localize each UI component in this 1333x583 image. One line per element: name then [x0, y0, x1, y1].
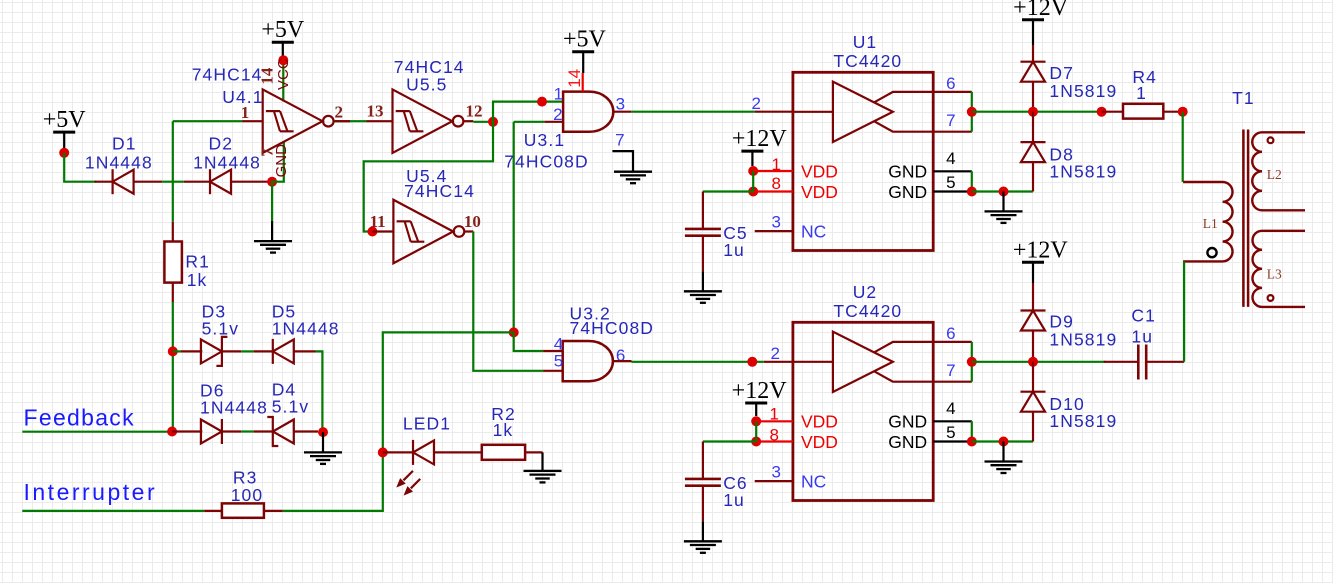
ground stem below D4 — [322, 432, 324, 452]
resistor R1 pins — [172, 222, 174, 242]
wire U4.1 output to U5.5 input — [335, 120, 367, 122]
polarity dot L2 — [1268, 137, 1274, 143]
wire C1 to T1 L1 bottom — [1183, 261, 1185, 361]
svg-text:+5V: +5V — [261, 17, 305, 43]
svg-text:74HC08D: 74HC08D — [504, 151, 589, 171]
capacitor C1 plates — [1137, 345, 1140, 380]
svg-text:2: 2 — [335, 103, 344, 122]
diode D9 1N5819 — [1021, 311, 1046, 331]
svg-text:+5V: +5V — [563, 27, 607, 53]
U2 GND pins tie wire — [971, 421, 973, 441]
svg-text:NC: NC — [801, 472, 826, 492]
svg-text:Interrupter: Interrupter — [24, 479, 158, 505]
svg-text:1u: 1u — [1131, 327, 1153, 347]
wire vertical to U3.2 pin 4 net — [513, 122, 515, 333]
wire Feedback — [22, 431, 172, 433]
AND gate U3.1 74HC08D — [563, 92, 613, 132]
stem to ground below C5 — [702, 271, 704, 291]
C5 top pin — [702, 192, 704, 229]
stem to ground below U1 GND — [1002, 192, 1004, 212]
U3.1 output pin stub — [613, 111, 631, 113]
svg-text:Feedback: Feedback — [24, 405, 135, 431]
svg-text:L2: L2 — [1267, 167, 1282, 182]
wire D5 to D4 ground corner — [316, 351, 323, 432]
svg-text:+12V: +12V — [1013, 0, 1069, 21]
junction dot U1 pin 8 VDD — [748, 187, 758, 197]
pin 14 stub red (U3.1 VCC) — [582, 73, 584, 92]
diode D5 1N4448 — [273, 339, 294, 364]
svg-text:74HC14: 74HC14 — [404, 181, 475, 201]
resistor R4 pins — [1102, 111, 1123, 113]
wire black stem to ground below U4.1 — [271, 221, 273, 241]
wire U3.2 output to U2 pin 2 — [632, 361, 764, 363]
diode D6 1N4448 — [201, 419, 222, 444]
transformer T1 winding L3 — [1252, 231, 1305, 307]
transformer T1 winding L1 — [1183, 182, 1232, 261]
wire U3.1 output to U1 pin 2 — [631, 111, 755, 113]
IC U2 pin2 inner line — [793, 361, 833, 363]
R2 right pin — [525, 451, 542, 453]
svg-text:1: 1 — [241, 103, 250, 122]
svg-text:D7: D7 — [1049, 63, 1074, 83]
svg-text:GND: GND — [888, 162, 927, 182]
wire between U2 VDD dots — [755, 421, 757, 441]
stem to ground below R2 — [541, 452, 543, 471]
junction dot U2 GND row 2 — [999, 437, 1009, 447]
wire U5.4 output down to U3.2 pin 5 — [473, 232, 543, 371]
capacitor C1 right pin — [1146, 361, 1184, 363]
ground below U3.1 pin 7 — [614, 172, 652, 184]
svg-text:12: 12 — [466, 101, 483, 120]
IC U1 pin2 inner line — [793, 111, 833, 113]
svg-text:T1: T1 — [1232, 88, 1255, 108]
wire VDD to C5 — [703, 190, 753, 192]
power +12V (above D9) — [1013, 237, 1069, 283]
svg-text:GND: GND — [888, 432, 927, 452]
svg-text:10: 10 — [464, 212, 481, 231]
wire into U1 pin 2 — [755, 111, 793, 113]
svg-text:7: 7 — [615, 131, 624, 150]
svg-text:5.1v: 5.1v — [272, 397, 309, 417]
svg-text:U1: U1 — [853, 32, 878, 52]
wire vertical net R1/U4.1 input — [172, 121, 174, 222]
wire R1 bottom to D3/D6 rows — [172, 302, 174, 432]
svg-text:2: 2 — [771, 344, 780, 363]
IC U2 buffer triangle — [833, 332, 893, 392]
svg-text:D2: D2 — [209, 134, 234, 154]
U2 pin 3 NC stub — [755, 480, 793, 482]
svg-text:4: 4 — [946, 149, 955, 168]
svg-text:2: 2 — [752, 94, 761, 113]
svg-text:VDD: VDD — [801, 182, 838, 202]
wire R4 to T1 L1 top — [1182, 112, 1184, 182]
U1 pins 6/7 tie — [971, 92, 973, 132]
svg-text:VDD: VDD — [801, 432, 838, 452]
wire to U4.1 input pin 1 — [173, 120, 243, 122]
wire into U2 pin 2 — [764, 361, 793, 363]
junction dot D3 row — [168, 346, 178, 356]
LED LED1 — [413, 440, 434, 465]
svg-text:7: 7 — [946, 361, 955, 380]
svg-text:3: 3 — [772, 463, 781, 482]
wire VDD to C6 — [703, 440, 756, 442]
svg-text:1: 1 — [1136, 83, 1147, 103]
ground below U2 pin 5 — [985, 462, 1023, 474]
wire D1-D2 link crossing vertical net — [162, 181, 184, 183]
wire junction down-left to U5.4 input — [364, 122, 493, 232]
power +12V (U2 VDD) — [732, 378, 788, 416]
junction dot U1 GND row 1 — [967, 187, 977, 197]
polarity dot L1 — [1207, 248, 1216, 257]
diode D8 1N5819 — [1021, 142, 1046, 162]
wire D3 row from junction — [173, 350, 181, 352]
power +5V (top, U4.1 VCC) — [261, 17, 305, 57]
svg-text:+12V: +12V — [732, 126, 788, 152]
svg-text:L1: L1 — [1203, 216, 1218, 231]
capacitor C6 plates — [685, 478, 721, 481]
diode D5 pins — [254, 350, 273, 352]
U1 VDD pin 1 red wire — [753, 170, 793, 172]
AND gate U3.2 74HC08D — [563, 341, 613, 381]
svg-text:L3: L3 — [1267, 267, 1282, 282]
junction dot U1 GND row 2 — [999, 187, 1009, 197]
junction dot Feedback/D6 row — [167, 427, 177, 437]
diode D1 1N4448 — [113, 169, 134, 194]
svg-text:+5V: +5V — [43, 107, 87, 133]
svg-text:2: 2 — [553, 105, 562, 124]
transformer T1 core — [1242, 130, 1245, 307]
junction dot LED branch — [378, 447, 388, 457]
wire U2 GND row — [972, 440, 1033, 442]
IC U1 buffer triangle — [833, 82, 893, 142]
junction dot U2 GND row 1 — [967, 437, 977, 447]
wire U5.5 output to junction — [473, 121, 493, 123]
inverter U5.5 74HC14 — [393, 89, 464, 153]
junction dot U5.4 pin 11 — [367, 227, 377, 237]
inverter U4.1 74HC14 — [263, 89, 334, 153]
junction dot D2/U4.1 GND — [267, 177, 277, 187]
resistor R3 — [222, 503, 264, 517]
LED1 arrows — [404, 471, 421, 488]
junction dot below top +5V — [278, 55, 288, 65]
D7 anode pin — [1032, 82, 1034, 112]
inverter U5.5 output pin stub — [464, 120, 474, 122]
C5 bottom pin — [702, 236, 704, 272]
svg-text:C1: C1 — [1131, 306, 1156, 326]
power +5V (U3.1 VCC) — [563, 27, 607, 73]
svg-text:NC: NC — [801, 222, 826, 242]
svg-text:6: 6 — [946, 324, 955, 343]
junction dot D9/D10 — [1028, 357, 1038, 367]
IC U2 TC4420 box — [793, 322, 933, 500]
svg-text:1k: 1k — [187, 270, 208, 290]
svg-text:3: 3 — [772, 213, 781, 232]
inverter U5.4 input pin — [372, 230, 393, 232]
U1 VDD pin 8 red wire — [753, 190, 793, 192]
svg-text:D1: D1 — [112, 134, 137, 154]
ground below R2 — [524, 471, 562, 483]
inverter U5.4 74HC14 — [393, 200, 464, 264]
junction dot U1 pin 1 VDD — [748, 166, 758, 176]
U2 VDD pin 1 red wire — [756, 420, 793, 422]
svg-text:11: 11 — [370, 212, 386, 231]
wire Interrupter to R3 — [22, 510, 204, 512]
wire junction up to U3.1 pin 1 — [493, 102, 563, 122]
junction dot U5.5 output — [488, 117, 498, 127]
svg-text:1u: 1u — [723, 490, 745, 510]
svg-text:74HC08D: 74HC08D — [570, 318, 655, 338]
svg-text:7: 7 — [946, 111, 955, 130]
wire to U3.2 pin 4 — [514, 332, 543, 351]
ground below U4.1/D2 — [254, 241, 292, 253]
svg-text:5: 5 — [554, 352, 563, 371]
pin 7 wire to ground (U3.1) — [612, 151, 633, 172]
junction dot wire to U3.2 pin 4 — [509, 327, 519, 337]
pin 4 stub U3.2 — [543, 350, 563, 352]
resistor R1 — [164, 242, 182, 283]
transformer T1 winding L2 — [1252, 132, 1305, 210]
resistor R3 pins — [204, 510, 222, 512]
capacitor C1 left pin — [1104, 361, 1139, 363]
D8 cathode pin — [1032, 112, 1034, 142]
junction dot U1 output — [967, 107, 977, 117]
svg-text:R1: R1 — [185, 251, 210, 271]
wire U1 GND row — [972, 190, 1033, 192]
svg-text:74HC14: 74HC14 — [192, 65, 263, 85]
wire U4.1 GND pin down to junction — [272, 142, 284, 222]
wire +5V stem to U4.1 VCC — [282, 65, 284, 102]
power +12V (above D7) — [1013, 0, 1069, 45]
U2 VDD pin 8 red wire — [756, 440, 793, 442]
svg-text:1N5819: 1N5819 — [1049, 330, 1117, 350]
svg-text:U3.1: U3.1 — [524, 130, 565, 150]
svg-text:8: 8 — [772, 174, 781, 193]
pin 5 stub U3.2 — [543, 370, 563, 372]
capacitor C5 plates — [685, 228, 721, 231]
svg-text:1N4448: 1N4448 — [193, 153, 261, 173]
D8 anode pin — [1032, 162, 1034, 191]
ground below C6 — [684, 541, 722, 553]
junction dot U2 pin 8 VDD — [751, 437, 761, 447]
stem to ground below C6 — [702, 521, 704, 541]
power +12V (U1 VDD) — [732, 126, 788, 166]
D10 cathode pin — [1032, 362, 1034, 392]
diode D4 pins — [254, 430, 273, 432]
inverter U4.1 output pin stub — [335, 120, 350, 122]
junction dot after R4 — [1178, 107, 1188, 117]
wire between D3 and D5 — [241, 350, 253, 352]
svg-text:GND: GND — [273, 144, 290, 178]
svg-text:VCC: VCC — [275, 58, 292, 90]
svg-text:3: 3 — [616, 94, 625, 113]
wire U2 output row to D9/D10 — [972, 361, 1106, 363]
resistor R2 — [482, 445, 525, 460]
inverter U5.4 output pin stub — [465, 230, 474, 232]
svg-text:6: 6 — [616, 346, 625, 365]
junction dot D7/D8 — [1028, 107, 1038, 117]
U1 pin 3 NC stub — [755, 230, 793, 232]
svg-text:1N5819: 1N5819 — [1049, 411, 1117, 431]
svg-text:GND: GND — [888, 412, 927, 432]
diode D10 1N5819 — [1021, 392, 1046, 412]
svg-text:5: 5 — [946, 423, 955, 442]
junction dot U2 output — [967, 357, 977, 367]
junction dot on U3.1 pin1 wire — [537, 97, 547, 107]
svg-text:U2: U2 — [853, 282, 878, 302]
svg-text:TC4420: TC4420 — [833, 301, 902, 321]
IC U2 output fork lines — [874, 342, 972, 382]
svg-text:1k: 1k — [493, 420, 514, 440]
wire junction to LED/interrupter net — [283, 332, 514, 511]
diode D1 pins — [95, 181, 113, 183]
svg-text:1N4448: 1N4448 — [272, 319, 340, 339]
D9 anode pin — [1032, 331, 1034, 362]
U2 GND pins 4/5 — [933, 420, 972, 422]
svg-text:LED1: LED1 — [403, 414, 451, 434]
svg-text:1N5819: 1N5819 — [1049, 162, 1117, 182]
IC U1 output fork lines — [874, 92, 972, 132]
inverter U4.1 input pin — [243, 120, 263, 122]
svg-text:VDD: VDD — [801, 162, 838, 182]
wire U1 output row to D7/D8 — [972, 111, 1102, 113]
junction dot before R4 — [1097, 107, 1107, 117]
diode D3 5.1v zener — [201, 337, 228, 366]
diode D6 pins — [172, 430, 202, 432]
D9 cathode pin — [1032, 283, 1034, 311]
svg-text:1N4448: 1N4448 — [200, 398, 268, 418]
C6 bottom pin — [702, 486, 704, 522]
svg-text:+12V: +12V — [732, 378, 788, 404]
svg-text:4: 4 — [946, 399, 955, 418]
svg-text:TC4420: TC4420 — [833, 51, 902, 71]
svg-text:5.1v: 5.1v — [202, 319, 239, 339]
ground below C5 — [684, 291, 722, 303]
svg-text:13: 13 — [367, 101, 384, 120]
power +5V (left) — [43, 107, 87, 150]
U2 pins 6/7 tie — [971, 342, 973, 382]
U1 GND pins tie wire — [971, 171, 973, 191]
U3.2 output pin stub — [613, 360, 632, 362]
svg-text:+12V: +12V — [1013, 237, 1069, 263]
ground below D4 — [304, 452, 342, 464]
pin 2 stub U3.1 — [545, 121, 564, 123]
svg-text:GND: GND — [888, 182, 927, 202]
svg-text:1N5819: 1N5819 — [1049, 81, 1117, 101]
svg-text:6: 6 — [946, 74, 955, 93]
svg-text:5: 5 — [946, 173, 955, 192]
diode D3 pins — [181, 350, 202, 352]
svg-text:1u: 1u — [723, 240, 745, 260]
D10 anode pin — [1032, 412, 1034, 442]
wire between VDD dots — [752, 171, 754, 192]
svg-text:14: 14 — [565, 69, 584, 88]
LED1 cathode pin to R2 — [434, 451, 482, 453]
svg-text:U5.5: U5.5 — [406, 75, 447, 95]
D7 cathode pin — [1032, 45, 1034, 62]
stem to ground below U2 GND — [1002, 442, 1004, 462]
C6 top pin — [702, 442, 704, 479]
IC U1 TC4420 box — [793, 72, 933, 250]
svg-text:100: 100 — [231, 485, 264, 505]
U1 GND pins 4/5 — [933, 170, 972, 172]
junction dot on U2 pin 2 wire — [747, 357, 757, 367]
wire +5V to D1 row — [64, 153, 96, 182]
svg-text:1N4448: 1N4448 — [85, 153, 153, 173]
ground below U1 pin 5 — [985, 211, 1023, 223]
junction dot below left +5V — [59, 148, 69, 158]
wire between D6 and D4 — [241, 430, 253, 432]
polarity dot L3 — [1268, 295, 1274, 301]
resistor R4 — [1123, 104, 1163, 119]
svg-text:D9: D9 — [1049, 312, 1074, 332]
svg-text:14: 14 — [258, 67, 277, 85]
LED1 anode pin — [383, 451, 413, 453]
svg-text:1: 1 — [554, 85, 563, 104]
junction dot U2 pin 1 VDD — [751, 416, 761, 426]
diode D4 5.1v zener — [267, 417, 294, 446]
inverter U5.5 input pin — [367, 120, 393, 122]
junction dot D4/ground — [318, 427, 328, 437]
wire U3.1 pin 2 — [514, 121, 545, 123]
svg-text:VDD: VDD — [801, 412, 838, 432]
diode D2 pins — [184, 181, 210, 183]
diode D2 1N4448 — [210, 169, 231, 194]
diode D7 1N5819 — [1021, 62, 1046, 82]
